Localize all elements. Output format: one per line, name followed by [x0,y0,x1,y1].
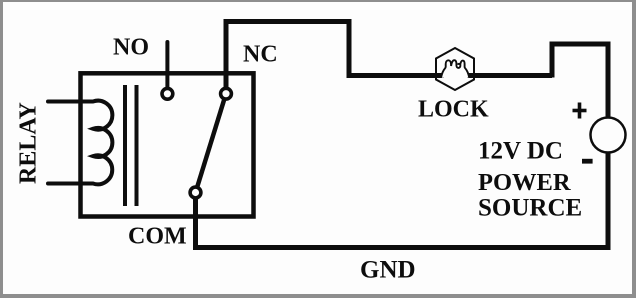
COM contact circle [190,187,201,198]
battery + symbol [573,109,587,113]
wire NC contact up/over to lock (net NC) [226,22,552,91]
lock SW1 hexagon [436,48,474,90]
NO contact circle [162,88,173,99]
battery - symbol [582,159,593,164]
svg-text:LOCK: LOCK [418,97,489,123]
relay core bar 2 [135,85,139,206]
battery BT1 circle [591,118,626,153]
lock wire stub right [467,73,476,78]
relay core bar 1 [123,85,127,206]
NC contact circle [221,88,232,99]
frame border bottom [0,294,636,298]
frame border right [632,0,636,298]
svg-text:SOURCE: SOURCE [478,195,582,222]
svg-text:POWER: POWER [478,169,571,196]
svg-text:12V DC: 12V DC [478,138,563,165]
relay box [81,73,254,216]
svg-text:NO: NO [113,35,149,61]
svg-text:GND: GND [360,257,416,284]
svg-text:NC: NC [243,42,278,68]
wire lock to battery + terminal [552,44,608,120]
frame border top [0,0,636,2]
svg-text:RELAY: RELAY [16,102,42,184]
svg-text:COM: COM [128,224,187,250]
wire battery - terminal down, bottom GND run, up to COM [196,150,609,248]
lock padlock icon body fill [441,64,469,78]
relay coil [48,101,112,185]
frame border left [0,0,3,298]
NO contact lead [165,42,169,90]
lock wire stub left [434,73,444,78]
armature COM to NC [196,94,227,193]
lock padlock icon outline [441,60,469,78]
